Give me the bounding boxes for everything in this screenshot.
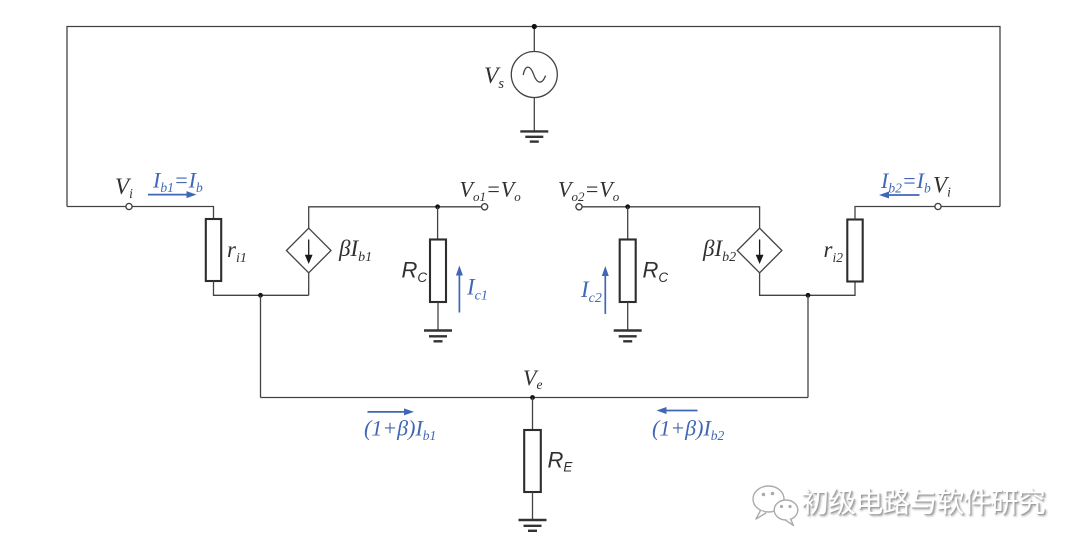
node Ve (dot) bbox=[530, 395, 535, 400]
svg-text:Ic2: Ic2 bbox=[580, 277, 602, 306]
resistor RC right bbox=[620, 240, 636, 303]
svg-text:Vi: Vi bbox=[115, 174, 133, 201]
wire ri2 top to Vi right bbox=[855, 207, 935, 220]
svg-text:RC: RC bbox=[643, 258, 669, 286]
ground below RE bbox=[519, 520, 547, 531]
svg-text:βIb2: βIb2 bbox=[702, 236, 736, 265]
svg-text:(1+β)Ib2: (1+β)Ib2 bbox=[652, 416, 725, 444]
wire Vo2 to diamond2 top bbox=[582, 207, 760, 228]
node Vi right (open terminal) bbox=[935, 203, 941, 209]
node junction Vo1 (dot) bbox=[435, 204, 440, 209]
arrow Ic1 up bbox=[458, 275, 460, 313]
wire diamond1 top to Vo1 bbox=[309, 207, 482, 228]
node Vo1 (open terminal) bbox=[482, 204, 488, 210]
svg-text:Vs: Vs bbox=[484, 63, 504, 92]
svg-text:Vo2=Vo: Vo2=Vo bbox=[558, 177, 620, 205]
arrow (1+b)Ib2 left bbox=[666, 410, 698, 412]
arrow inside beta-Ib2 bbox=[756, 240, 764, 265]
svg-text:Ve: Ve bbox=[523, 365, 542, 392]
wire Vs to top rail bbox=[533, 27, 535, 52]
node junction Vo2 (dot) bbox=[625, 204, 630, 209]
resistor RC left bbox=[430, 240, 446, 303]
resistor ri2 bbox=[847, 220, 862, 282]
wire diamond2 bottom to ri2 bottom bbox=[760, 273, 855, 296]
wire RC right to ground bbox=[627, 302, 629, 330]
wire RC left to ground bbox=[437, 302, 439, 330]
watermark logo (chat bubbles) bbox=[753, 486, 798, 526]
svg-text:RE: RE bbox=[548, 448, 574, 475]
svg-text:(1+β)Ib1: (1+β)Ib1 bbox=[364, 416, 436, 444]
arrow Ib1 right bbox=[148, 194, 187, 196]
ground below RC left bbox=[424, 331, 452, 342]
svg-text:βIb1: βIb1 bbox=[338, 236, 372, 265]
wire Vs to ground bbox=[533, 98, 535, 132]
svg-text:ri1: ri1 bbox=[227, 237, 247, 266]
resistor RE bbox=[524, 430, 541, 492]
wire Ve to RE bbox=[532, 398, 534, 431]
svg-text:Ib2=Ib: Ib2=Ib bbox=[880, 168, 931, 196]
svg-text:Ib1=Ib: Ib1=Ib bbox=[152, 168, 203, 196]
node Vi left (open terminal) bbox=[126, 203, 132, 209]
svg-text:Vo1=Vo: Vo1=Vo bbox=[460, 177, 522, 205]
current source beta-Ib1 diamond U1 bbox=[286, 228, 331, 273]
sine symbol inside Vs bbox=[523, 67, 545, 82]
ground below Vs bbox=[520, 131, 548, 141]
current source beta-Ib2 diamond U2 bbox=[737, 228, 782, 273]
wire Vo2 node to RC right bbox=[627, 207, 629, 240]
node junction top (dot) bbox=[532, 24, 537, 29]
wire left emitter drop bbox=[260, 295, 262, 397]
wire Vi left input bbox=[67, 207, 214, 220]
svg-text:ri2: ri2 bbox=[824, 237, 844, 265]
wire top rail and side drops bbox=[67, 27, 1000, 207]
node Vo2 (open terminal) bbox=[576, 204, 582, 210]
wire right emitter drop bbox=[807, 295, 809, 397]
node junction right emitter (dot) bbox=[806, 293, 811, 298]
arrow Ib2 left bbox=[888, 194, 920, 196]
svg-text:RC: RC bbox=[402, 258, 428, 286]
wire diamond1 bottom drop bbox=[308, 273, 310, 296]
wire Vi right to rail bbox=[941, 206, 1000, 208]
node junction left emitter (dot) bbox=[258, 293, 263, 298]
arrow inside beta-Ib1 bbox=[305, 240, 313, 265]
wire Vo1 node to RC left bbox=[437, 207, 439, 240]
ground below RC right bbox=[614, 331, 642, 342]
arrow Ic2 up bbox=[604, 275, 606, 314]
svg-text:Ic1: Ic1 bbox=[466, 275, 488, 304]
wire ri1 bottom to diamond bottom bbox=[214, 281, 309, 295]
wire bottom rail Ve bbox=[261, 397, 809, 399]
blue current arrows bbox=[148, 191, 920, 415]
resistor ri1 bbox=[206, 219, 221, 281]
svg-text:Vi: Vi bbox=[933, 173, 951, 200]
watermark text bbox=[801, 489, 1080, 529]
source Vs circle bbox=[511, 52, 557, 98]
wire RE to ground bbox=[532, 492, 534, 520]
arrow (1+b)Ib1 right bbox=[368, 411, 405, 413]
